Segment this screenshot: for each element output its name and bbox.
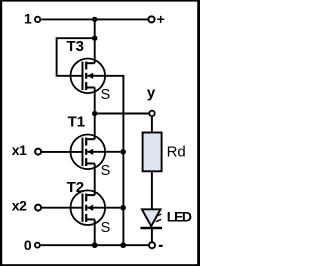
LED diode [140, 209, 162, 228]
junction gate loop [92, 36, 97, 41]
svg-text:Rd: Rd [167, 144, 186, 161]
svg-text:0: 0 [24, 237, 32, 253]
label - [159, 245, 163, 247]
wire T3 gate-drain loop [57, 38, 95, 76]
svg-text:LED: LED [167, 209, 192, 225]
wire x1 gate [42, 151, 82, 153]
node y junction [92, 111, 97, 116]
terminal circle y [149, 111, 154, 116]
junction chain bottom [92, 242, 98, 248]
terminal circle 0 [35, 243, 40, 248]
svg-text:x1: x1 [12, 142, 27, 158]
svg-text:S: S [101, 163, 111, 179]
junction T2 body [120, 205, 126, 211]
svg-text:x2: x2 [12, 198, 27, 214]
terminal circle x2 [35, 205, 41, 211]
svg-text:S: S [101, 87, 111, 103]
transistor T1 [71, 135, 121, 170]
terminal circle - [149, 242, 155, 248]
resistor Rd [143, 133, 162, 172]
wire LED to terminal [151, 228, 153, 242]
wire chain segment D [94, 114, 96, 140]
wire chain segment A [94, 19, 96, 38]
transistor T3 [71, 59, 106, 94]
transistor T2 [71, 190, 121, 225]
svg-text:T3: T3 [67, 38, 85, 55]
wire bottom rail [41, 244, 148, 246]
svg-text:1: 1 [24, 11, 32, 27]
wire x2 gate [42, 207, 82, 209]
wire y terminal to Rd [151, 117, 153, 133]
wire top rail [41, 18, 148, 20]
svg-text:S: S [101, 220, 111, 236]
wire Rd to LED [151, 171, 153, 209]
svg-text:+: + [157, 11, 165, 27]
wire chain segment C [94, 88, 96, 114]
wire chain segment B [94, 38, 96, 63]
svg-text:T2: T2 [67, 179, 85, 196]
svg-text:T1: T1 [68, 113, 86, 130]
wire chain segment E [94, 164, 96, 196]
wire T3 body to ground bus [105, 76, 123, 245]
junction top rail [92, 17, 97, 22]
wire chain segment F [94, 219, 96, 245]
svg-text:y: y [147, 85, 156, 102]
junction body bus bottom [120, 242, 126, 248]
terminal circle 1 [35, 17, 40, 22]
wire node y horizontal [95, 113, 149, 115]
page border frame [0, 0, 2, 266]
terminal circle + [148, 16, 154, 22]
terminal circle x1 [35, 149, 41, 155]
junction T1 body [120, 149, 126, 155]
